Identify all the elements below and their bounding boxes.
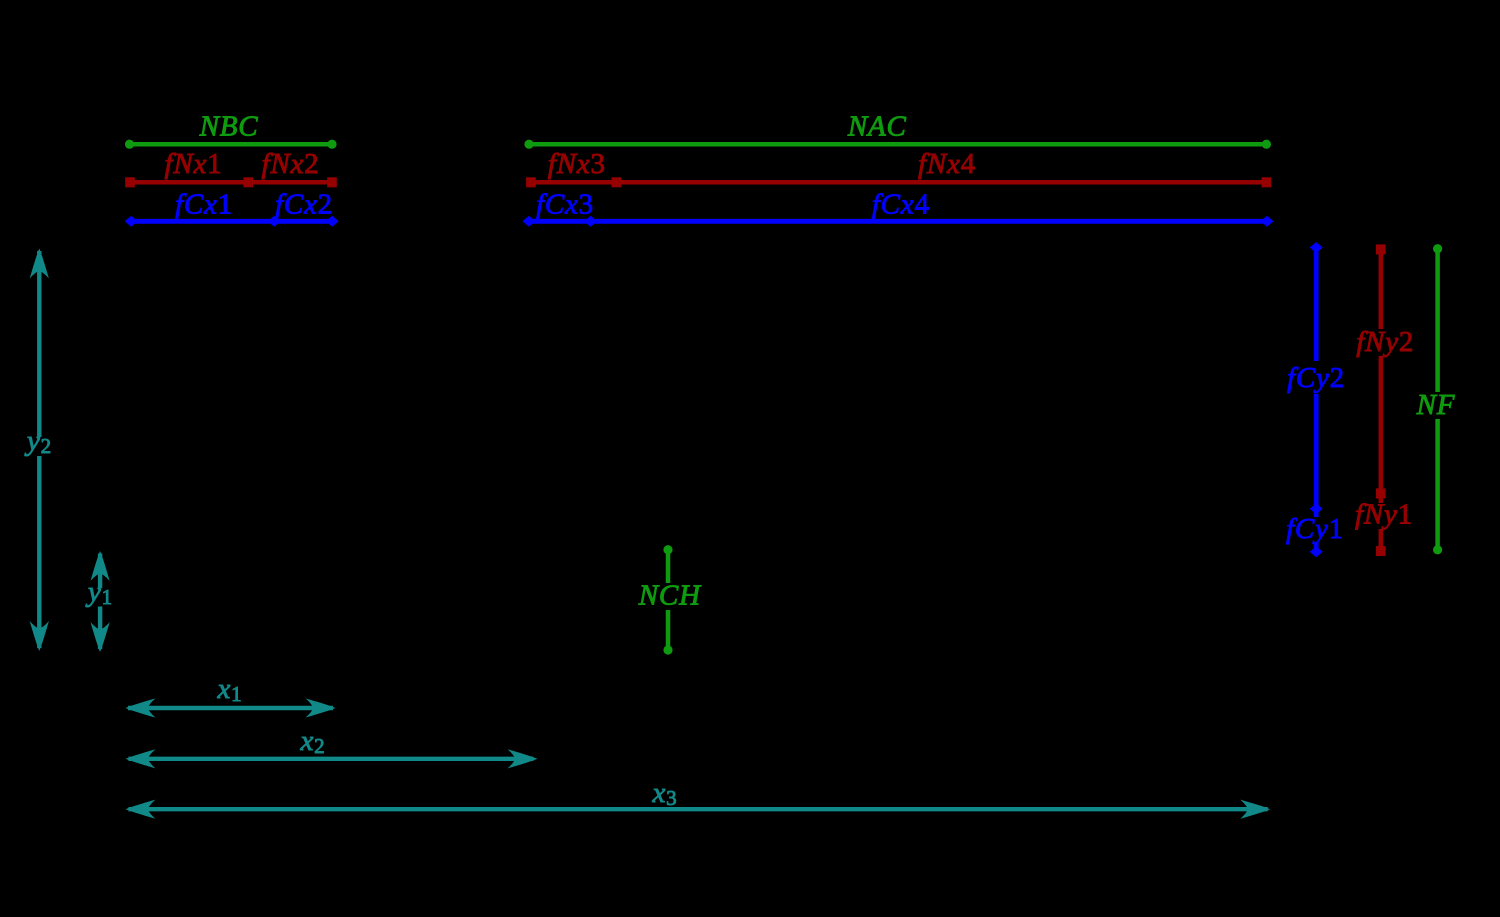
dimension arrow x2 (teal, bottom) [126, 749, 538, 768]
dimension arrow y1 (teal, left) [91, 551, 110, 652]
svg-text:fNx3: fNx3 [548, 148, 606, 180]
vertical line fNy1-fNy2 (dark red, right) [1376, 244, 1386, 556]
svg-text:fNy1: fNy1 [1355, 499, 1413, 531]
line fCx3-fCx4 (blue, top-right) [523, 216, 1274, 227]
label box NF [1415, 392, 1459, 419]
svg-text:fCx4: fCx4 [872, 189, 930, 221]
label box fCy2 [1289, 361, 1347, 394]
label box fNy1 [1357, 503, 1414, 529]
svg-text:NBC: NBC [199, 111, 259, 143]
vertical line NF (green, right) [1433, 244, 1442, 554]
line fNx1-fNx2 (dark red, top-left) [125, 177, 337, 187]
svg-text:fNx2: fNx2 [262, 148, 320, 180]
dimension arrow x1 (teal, bottom) [126, 698, 336, 717]
svg-text:NAC: NAC [847, 111, 907, 143]
svg-text:fCy2: fCy2 [1287, 362, 1345, 394]
line NBC (green, top-left) [125, 140, 337, 149]
svg-text:fCx2: fCx2 [275, 189, 333, 221]
vertical line NCH (green, middle) [663, 545, 672, 655]
dimension arrow y2 (teal, left) [30, 249, 49, 652]
line fNx3-fNx4 (dark red, top-right) [526, 177, 1271, 187]
line fCx1-fCx2 (blue, top-left) [125, 216, 339, 227]
dimension arrow x3 (teal, bottom) [126, 800, 1271, 819]
label box fCy1 [1287, 517, 1343, 543]
svg-text:fCy1: fCy1 [1286, 513, 1344, 545]
svg-text:NCH: NCH [638, 580, 702, 612]
label box fNy2 [1357, 329, 1414, 356]
svg-text:fCx3: fCx3 [536, 189, 594, 221]
vertical line fCy1-fCy2 (blue, right) [1310, 242, 1323, 557]
svg-text:fNx1: fNx1 [165, 148, 223, 180]
svg-text:fNx4: fNx4 [918, 148, 976, 180]
svg-text:fNy2: fNy2 [1356, 326, 1414, 358]
svg-text:fCx1: fCx1 [175, 189, 233, 221]
line NAC (green, top-right) [524, 140, 1271, 149]
svg-text:NF: NF [1416, 389, 1456, 421]
